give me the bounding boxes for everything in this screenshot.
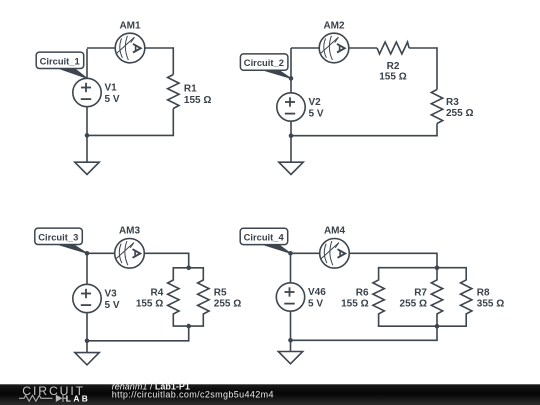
node flag Circuit_2: [240, 54, 291, 79]
wire AM1 right to R1 column: [145, 47, 174, 49]
svg-text:155 Ω: 155 Ω: [379, 71, 406, 82]
logo resistor+diode squiggle: [19, 395, 66, 402]
node flag Circuit_3: [35, 228, 87, 253]
wire R1 bottom down: [172, 109, 174, 136]
wire R2 to right column: [409, 47, 437, 49]
wire bus down: [188, 326, 190, 341]
ground (circuit 3): [75, 353, 99, 365]
wire down to R3 top: [436, 47, 438, 89]
bottom bus (R6 || R7 || R8): [378, 325, 467, 327]
wire to ground 2: [290, 136, 292, 163]
node junction (V1- / R1- / gnd): [85, 133, 90, 138]
wire to ground 1: [86, 135, 88, 162]
wire node to AM3 left: [87, 252, 115, 254]
svg-text:5 V: 5 V: [309, 108, 324, 119]
wire V46 - to bottom rail: [290, 311, 292, 340]
resistor R2: [377, 42, 409, 54]
svg-text:5 V: 5 V: [308, 298, 323, 309]
junction bottom bus c4: [435, 324, 440, 329]
ammeter AM4: [320, 239, 350, 269]
svg-text:V1: V1: [105, 83, 118, 94]
svg-text:AM2: AM2: [323, 20, 345, 31]
svg-text:Circuit_4: Circuit_4: [244, 231, 285, 242]
svg-text:R8: R8: [477, 287, 490, 298]
svg-text:5 V: 5 V: [105, 300, 120, 311]
svg-text:AM3: AM3: [119, 226, 141, 237]
wire feed down to top bus: [436, 253, 438, 268]
svg-text:R5: R5: [214, 287, 227, 298]
wire V3 - to bottom rail: [86, 313, 88, 341]
node junction (V3+ / AM3 / flag): [85, 251, 90, 256]
voltage source V2: [277, 93, 305, 121]
node flag Circuit_1: [36, 52, 87, 78]
svg-text:255 Ω: 255 Ω: [400, 299, 427, 310]
svg-text:V46: V46: [308, 287, 326, 298]
wire V1-top-rail to AM1 left: [87, 47, 115, 49]
node junction (V3- / gnd): [85, 339, 90, 344]
svg-text:Circuit_3: Circuit_3: [38, 231, 78, 242]
junction top bus c4: [435, 265, 440, 270]
ground (circuit 2): [279, 162, 303, 174]
ground (circuit 4): [278, 352, 302, 364]
resistor R7: [431, 268, 442, 327]
svg-text:355 Ω: 355 Ω: [477, 299, 504, 310]
top bus (R4 || R5): [173, 267, 205, 269]
svg-text:R1: R1: [184, 84, 197, 95]
svg-text:155 Ω: 155 Ω: [136, 299, 163, 310]
svg-text:Circuit_2: Circuit_2: [244, 57, 284, 68]
resistor R1: [168, 75, 179, 109]
wire R3 bottom down: [436, 124, 438, 136]
junction bottom bus: [186, 324, 191, 329]
svg-text:R7: R7: [414, 287, 427, 298]
wire feed down to top bus: [188, 253, 190, 268]
node junction (flag tap on V2 wire): [289, 76, 294, 81]
junction top bus: [186, 266, 191, 271]
bottom bus (R4 || R5): [173, 325, 205, 327]
svg-text:http://circuitlab.com/c2smgb5u: http://circuitlab.com/c2smgb5u442m4: [112, 390, 274, 400]
wire node down to V3 +: [86, 253, 88, 284]
svg-text:R4: R4: [151, 287, 164, 298]
wire node down to V46 +: [290, 253, 292, 282]
node junction (V2- / R3- / gnd): [289, 133, 294, 138]
wire to ground 3: [86, 341, 88, 353]
node flag Circuit_4: [240, 228, 290, 253]
svg-text:155 Ω: 155 Ω: [184, 95, 211, 106]
svg-text:Circuit_1: Circuit_1: [40, 55, 80, 66]
voltage source V46: [276, 283, 304, 311]
voltage source V1: [73, 78, 101, 106]
voltage source V3: [73, 284, 101, 312]
wire node to AM2 left: [291, 47, 319, 49]
ammeter AM3: [115, 239, 145, 269]
svg-text:155 Ω: 155 Ω: [341, 299, 368, 310]
top bus (R6 || R7 || R8): [378, 267, 467, 269]
resistor R8: [461, 268, 472, 327]
wire top rail down to V1 +: [86, 49, 88, 79]
resistor R3: [431, 90, 442, 124]
bottom wire of circuit 3: [86, 340, 189, 342]
svg-text:R6: R6: [356, 287, 369, 298]
wire down to R1 top: [172, 47, 174, 74]
ammeter AM1: [115, 33, 145, 63]
bottom wire of circuit 4: [290, 339, 438, 341]
wire V1 - to bottom rail: [86, 107, 88, 136]
wire bus down: [436, 326, 438, 340]
wire AM3 right to feed corner: [144, 252, 188, 254]
resistor R4: [168, 268, 179, 326]
svg-text:LAB: LAB: [66, 393, 90, 403]
ground (circuit 1): [75, 162, 99, 174]
bottom wire of circuit 1: [86, 134, 174, 136]
wire top rail down to V2 +: [290, 48, 292, 93]
svg-text:AM4: AM4: [324, 226, 346, 237]
wire node to AM4 left: [291, 252, 320, 254]
wire to ground 4: [290, 340, 292, 351]
node junction (V46+ / AM4 / flag): [288, 251, 293, 256]
resistor R6: [373, 268, 384, 327]
node junction (V46- / gnd): [288, 338, 293, 343]
wire V2 - to bottom rail: [290, 121, 292, 136]
svg-text:255 Ω: 255 Ω: [214, 299, 241, 310]
svg-text:AM1: AM1: [119, 20, 141, 31]
CircuitLab logo wordmark: [22, 384, 90, 403]
wire AM2 right to R2: [349, 47, 377, 49]
svg-text:V3: V3: [105, 289, 118, 300]
wire AM4 right to feed corner: [349, 252, 437, 254]
svg-text:V2: V2: [309, 97, 322, 108]
resistor R5: [198, 268, 209, 326]
svg-text:5 V: 5 V: [105, 94, 120, 105]
svg-text:R3: R3: [446, 97, 459, 108]
ammeter AM2: [319, 33, 349, 63]
bottom wire of circuit 2: [290, 135, 438, 137]
svg-text:255 Ω: 255 Ω: [446, 108, 473, 119]
